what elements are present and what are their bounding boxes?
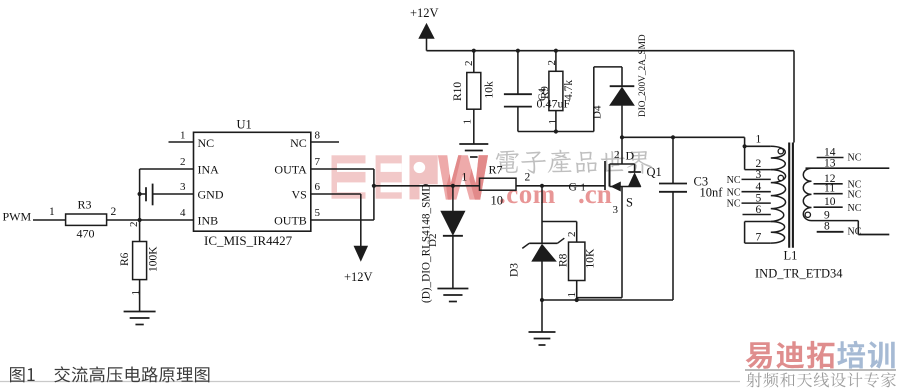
node junction C4 bbox=[516, 49, 520, 53]
svg-text:10: 10 bbox=[824, 196, 836, 208]
watermark Chinese 電子産品世界 bbox=[496, 150, 652, 174]
svg-text:NC: NC bbox=[848, 189, 862, 200]
svg-text:R6: R6 bbox=[119, 252, 131, 266]
wire junction to INA bbox=[140, 169, 194, 220]
svg-text:R10: R10 bbox=[452, 82, 464, 101]
resistor R8 bbox=[558, 222, 597, 301]
wire source bus bbox=[542, 187, 673, 301]
node junction C3 bbox=[671, 135, 675, 139]
svg-text:2: 2 bbox=[111, 206, 117, 218]
transformer L1 IND_TR_ETD34 primary bbox=[727, 134, 786, 244]
svg-text:OUTB: OUTB bbox=[274, 214, 307, 228]
node junction R10 bbox=[472, 49, 476, 53]
svg-text:IC_MIS_IR4427: IC_MIS_IR4427 bbox=[204, 233, 293, 248]
capacitor C3 10nf bbox=[659, 137, 723, 300]
svg-text:NC: NC bbox=[848, 153, 862, 164]
svg-text:11: 11 bbox=[824, 183, 835, 195]
svg-text:2: 2 bbox=[614, 149, 620, 161]
svg-text:7: 7 bbox=[315, 156, 321, 168]
node junction bus R8 bbox=[575, 298, 579, 302]
svg-text:1: 1 bbox=[462, 172, 468, 184]
svg-text:2: 2 bbox=[463, 61, 475, 67]
resistor R10 bbox=[452, 51, 496, 144]
resistor R9 4.7k bbox=[546, 51, 575, 132]
svg-text:NC: NC bbox=[727, 175, 741, 186]
svg-text:U1: U1 bbox=[237, 118, 252, 132]
svg-text:2: 2 bbox=[525, 172, 531, 184]
node junction OUT bbox=[372, 184, 376, 188]
svg-text:3: 3 bbox=[613, 204, 619, 216]
svg-text:NC: NC bbox=[848, 203, 862, 214]
svg-text:2: 2 bbox=[546, 60, 558, 66]
svg-text:OUTA: OUTA bbox=[274, 163, 307, 177]
svg-text:2: 2 bbox=[566, 232, 578, 238]
node junction D2 bbox=[451, 184, 455, 188]
svg-text:G: G bbox=[569, 182, 577, 194]
diode D2 DIO_RLS4148_SMD bbox=[421, 184, 466, 303]
svg-text:Q1: Q1 bbox=[647, 165, 662, 179]
svg-text:1: 1 bbox=[581, 183, 586, 194]
svg-text:D3: D3 bbox=[509, 263, 521, 277]
node junction bus D3 bbox=[540, 298, 544, 302]
svg-text:+12V: +12V bbox=[410, 6, 439, 20]
svg-text:3: 3 bbox=[756, 169, 762, 181]
svg-text:VS: VS bbox=[291, 188, 306, 202]
svg-text:1: 1 bbox=[547, 119, 559, 125]
svg-text:NC: NC bbox=[848, 227, 862, 238]
svg-text:470: 470 bbox=[77, 227, 95, 241]
zener diode D3 bbox=[509, 222, 565, 301]
watermark .com.cn text bbox=[499, 179, 612, 209]
svg-text:4: 4 bbox=[756, 181, 762, 193]
resistor R3 bbox=[66, 198, 117, 241]
svg-text:D4: D4 bbox=[592, 105, 604, 119]
ground (source bus) bbox=[529, 332, 556, 345]
wire C4/R9 bottom bus to D4 bbox=[518, 67, 622, 134]
svg-text:2: 2 bbox=[180, 156, 186, 168]
wire R3 to INB node bbox=[107, 219, 194, 221]
transformer L1 secondary bbox=[803, 146, 889, 237]
resistor R6 bbox=[119, 220, 160, 311]
svg-text:R7: R7 bbox=[489, 163, 503, 177]
svg-text:8: 8 bbox=[824, 221, 830, 233]
svg-text:4.7k: 4.7k bbox=[563, 80, 575, 100]
svg-text:R8: R8 bbox=[558, 253, 570, 267]
node junction D3/R8 bbox=[540, 184, 544, 188]
wire PWM to R3 bbox=[33, 206, 66, 220]
svg-text:1: 1 bbox=[756, 134, 762, 146]
watermark EEPW logo letter W bbox=[438, 155, 488, 199]
transformer L1 core bbox=[789, 143, 793, 248]
separator line bbox=[0, 381, 740, 383]
svg-text:D: D bbox=[626, 149, 635, 163]
op-amp driver IC U1 IC_MIS_IR4427 bbox=[169, 118, 340, 249]
resistor R7 bbox=[462, 163, 531, 208]
svg-text:7: 7 bbox=[756, 232, 762, 244]
svg-text:GND: GND bbox=[198, 188, 224, 202]
logo 易迪拓培训 bbox=[745, 341, 896, 370]
svg-text:10nf: 10nf bbox=[700, 186, 724, 200]
ground (below R10) bbox=[459, 144, 488, 157]
node junction PWM/R6/INA bbox=[138, 218, 142, 222]
svg-text:NC: NC bbox=[198, 136, 215, 150]
watermark EEPW logo letter E bbox=[332, 155, 366, 198]
svg-text:100K: 100K bbox=[148, 246, 160, 272]
svg-text:INA: INA bbox=[198, 163, 220, 177]
power +12V (VS, arrow down) bbox=[344, 246, 373, 284]
svg-text:6: 6 bbox=[756, 204, 762, 216]
svg-text:R3: R3 bbox=[78, 198, 92, 212]
wire OUT to R7 bbox=[374, 185, 480, 187]
svg-text:.com: .com bbox=[499, 179, 556, 209]
transformer L1 label bbox=[755, 249, 843, 281]
svg-text:1: 1 bbox=[462, 119, 474, 125]
node junction drain bbox=[620, 135, 624, 139]
svg-text:5: 5 bbox=[756, 193, 762, 205]
transistor Q1 MOSFET bbox=[605, 149, 662, 217]
svg-text:2: 2 bbox=[128, 222, 140, 228]
svg-text:10k: 10k bbox=[484, 81, 496, 99]
wire rail to core bbox=[793, 51, 795, 143]
wire R7 to gate bbox=[516, 182, 605, 194]
capacitor C4 0.47uF bbox=[504, 51, 571, 132]
svg-text:NC: NC bbox=[727, 199, 741, 210]
diode D4 DIO_200V_2A_SMD bbox=[592, 34, 649, 119]
svg-text:NC: NC bbox=[727, 187, 741, 198]
wire VS to +12V bbox=[311, 194, 361, 246]
svg-text:NC: NC bbox=[290, 136, 307, 150]
svg-text:IND_TR_ETD34: IND_TR_ETD34 bbox=[755, 267, 843, 281]
svg-text:3: 3 bbox=[180, 181, 186, 193]
svg-text:8: 8 bbox=[315, 130, 321, 142]
node PWM input label bbox=[3, 210, 32, 224]
svg-text:D2: D2 bbox=[427, 234, 439, 247]
capacitor C1 (GND pin bypass) bbox=[138, 184, 194, 206]
svg-text:1: 1 bbox=[49, 206, 55, 218]
svg-text:INB: INB bbox=[198, 214, 219, 228]
power +12V (rail, arrow up) bbox=[410, 6, 439, 51]
logo tagline 射频和天线设计专家 bbox=[747, 372, 896, 387]
caption 图1 交流高压电路原理图 bbox=[10, 366, 209, 382]
svg-text:6: 6 bbox=[315, 181, 321, 193]
svg-text:PWM: PWM bbox=[3, 210, 32, 224]
svg-text:L1: L1 bbox=[784, 249, 798, 263]
wire bus to ground bbox=[541, 300, 543, 332]
wire gate node down to D3/R8 bbox=[542, 186, 577, 222]
wire OUTA/OUTB tie bbox=[311, 169, 374, 220]
svg-text:S: S bbox=[626, 196, 633, 210]
svg-text:10: 10 bbox=[491, 194, 504, 208]
wire drain bbox=[621, 105, 623, 164]
wire drain node to transformer bbox=[622, 136, 745, 138]
wire +12V rail bbox=[427, 50, 795, 52]
svg-text:5: 5 bbox=[315, 207, 321, 219]
ground (below R6) bbox=[124, 312, 156, 325]
svg-text:1: 1 bbox=[180, 130, 186, 142]
svg-text:+12V: +12V bbox=[344, 270, 373, 284]
node junction R9 bbox=[554, 49, 558, 53]
watermark EEPW logo letter P bbox=[410, 155, 438, 199]
svg-text:10K: 10K bbox=[585, 248, 597, 269]
ground (below D2) bbox=[437, 289, 468, 302]
svg-text:4: 4 bbox=[180, 207, 186, 219]
svg-text:DIO_200V_2A_SMD: DIO_200V_2A_SMD bbox=[638, 34, 648, 117]
watermark EEPW logo letter E2 bbox=[376, 155, 402, 198]
svg-text:13: 13 bbox=[824, 157, 836, 169]
